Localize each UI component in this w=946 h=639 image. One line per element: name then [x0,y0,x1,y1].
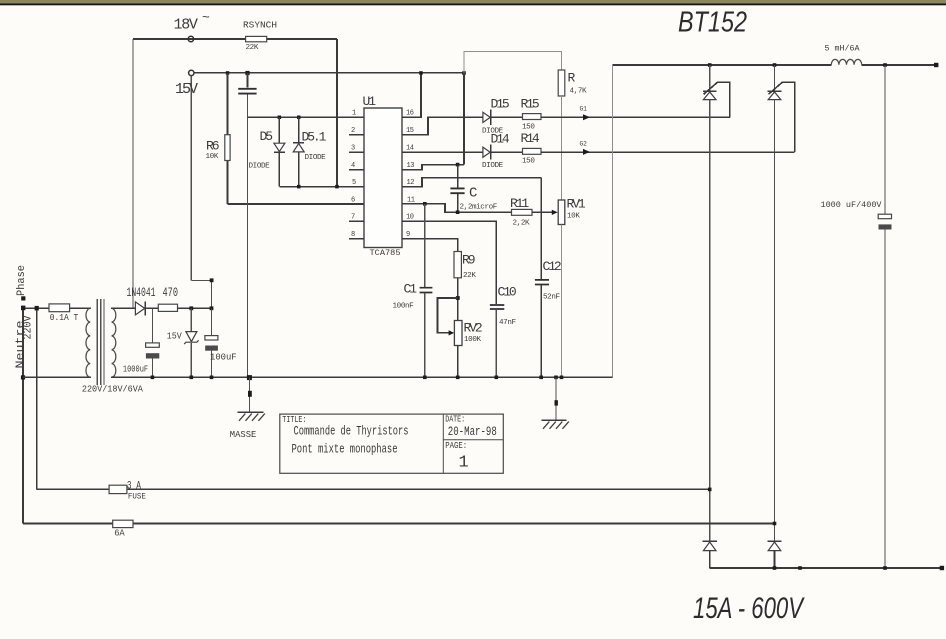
wire R bottom to RV1 top [561,96,563,200]
capacitor C1 [393,204,433,378]
wire fuse to primary [70,307,91,309]
node junction C12 on rail [539,376,543,380]
svg-text:2,2microF: 2,2microF [460,204,498,212]
node terminal Neutre [21,306,25,311]
transformer T1 core [97,299,104,385]
node junction R6 top [226,71,230,75]
wire secondary top to rectifier [111,307,135,309]
svg-text:1000uF: 1000uF [123,365,148,375]
node junction 100uF top [210,306,214,310]
diode D5 [249,117,285,186]
resistor R6 [206,73,231,204]
wire pin13 step [402,165,464,170]
node junction decoupling cap top [245,71,249,75]
wire link 15V rail up-over to resistor R [464,52,562,73]
svg-text:15V: 15V [175,81,198,98]
svg-text:6: 6 [351,196,355,204]
resistor R9 [454,252,476,281]
svg-text:3 A: 3 A [127,480,141,492]
svg-text:Pont mixte monophase: Pont mixte monophase [292,441,398,456]
node output terminal + [934,63,938,67]
top olive banner [0,0,946,5]
thyristor Q2 BT152 [768,65,782,541]
diode bottom D2 [767,541,781,568]
resistor RSYNCH [243,21,277,53]
wire neutre feed to SCR2 leg [23,523,775,525]
node junction output cap top [883,63,887,67]
node junction MASSE drop on rail [247,375,252,380]
node junction neutre on SCR2 leg [773,522,777,526]
wire gate Q2 [768,82,794,152]
svg-text:220V: 220V [23,315,35,339]
wire C12 column [540,178,542,280]
svg-text:100K: 100K [464,336,481,344]
wire 470 to DC node [178,307,212,309]
node junction R9/RV2 wiper [456,296,460,300]
wire phase feed to SCR1 leg [37,488,710,490]
wire pin15 step to D15 [402,117,483,134]
svg-text:5: 5 [352,179,356,187]
node junction pin16 on rail [419,71,423,75]
capacitor decoupling 15V [238,73,256,378]
svg-text:G2: G2 [580,140,588,147]
svg-text:DATE:: DATE: [445,414,465,424]
svg-text:22K: 22K [463,272,476,280]
diode 1N4041 [127,286,156,316]
node rail corner at x464 [462,71,466,75]
svg-text:Phase: Phase [16,265,28,296]
pin 3 stub [349,151,364,153]
svg-text:52nF: 52nF [543,294,560,302]
svg-text:TCA785: TCA785 [370,249,401,258]
wire pin1 ground net [248,116,365,118]
pin labels right [406,110,415,239]
pin labels left [351,110,356,239]
svg-text:R9: R9 [462,253,475,268]
wire RSYNCH right drop to pin5 net [336,39,338,187]
node junction cap on bus [883,566,887,570]
wire R9 bottom to RV2 [457,278,459,321]
capacitor output 1000uF/400V [821,65,892,568]
transformer T1 secondary winding [112,308,116,377]
fuse F3 0.1A T [49,304,79,323]
wire bottom output bus [710,567,942,569]
svg-text:10K: 10K [206,153,219,161]
wire pin5 net [279,186,364,188]
node junction ground2 drop on rail [554,376,558,380]
svg-text:PAGE:: PAGE: [445,441,467,451]
svg-text:G1: G1 [580,106,588,113]
node junction D5.1 bottom [297,185,301,189]
node junction C1 on pin11 [423,202,427,206]
node junction SCR2 anode [773,63,777,67]
node junction D2 on bus [773,566,777,570]
capacitor C10 [490,285,517,378]
svg-text:DIODE: DIODE [249,163,271,171]
svg-text:D14: D14 [491,132,510,147]
svg-text:FUSE: FUSE [128,493,146,502]
wire RV2 wiper bracket [438,298,458,336]
wire 18V~ horizontal [133,38,337,40]
svg-text:2,2K: 2,2K [513,220,530,228]
wire 18V left drop to transformer secondary [132,39,134,308]
svg-text:5 mH/6A: 5 mH/6A [825,44,860,53]
svg-text:C12: C12 [543,259,561,274]
svg-text:6A: 6A [114,529,125,539]
svg-text:D5: D5 [260,129,273,144]
node junction RSYNCH drop on pin5 [335,185,339,189]
capacitor 1000uF [123,308,159,377]
svg-text:220V/18V/6VA: 220V/18V/6VA [82,384,144,394]
svg-text:D15: D15 [491,97,509,112]
svg-text:1000 uF/400V: 1000 uF/400V [821,201,882,210]
svg-text:22K: 22K [246,44,259,52]
svg-text:D5.1: D5.1 [302,130,327,145]
svg-text:4,7K: 4,7K [570,88,587,96]
svg-text:100nF: 100nF [393,303,415,311]
wire 15V feed elbow to DC node [191,280,211,308]
transformer T1 primary winding [86,308,90,377]
svg-text:7: 7 [351,214,355,222]
svg-text:C10: C10 [498,285,516,300]
node junction zener top [189,306,193,310]
node corner square [210,278,214,282]
svg-text:R11: R11 [510,196,529,211]
capacitor C12 [535,259,561,377]
node G1 arrow [580,106,591,121]
node G2 arrow [580,140,591,155]
wire pin14 to D14 [402,151,483,153]
pin 7 stub [349,220,364,222]
potentiometer RV1 [558,197,586,378]
wire neutre column [22,310,24,524]
node junction C1 on rail [423,376,427,380]
svg-text:Commande de Thyristors: Commande de Thyristors [294,424,409,439]
wire rectifier to resistor 470 [145,307,158,309]
svg-text:18V: 18V [174,17,198,34]
node terminal Phase [21,296,25,300]
node junction C bottom on pin11 net [456,210,460,214]
node 18V (ring terminal) [188,36,193,41]
pin 8 stub [349,238,364,240]
wire D15 to R15 [491,116,523,118]
wire gate Q1 [704,82,730,117]
wire pin11 step [402,204,512,212]
svg-text:3: 3 [351,145,355,153]
svg-text:8: 8 [351,231,355,239]
svg-text:20-Mar-98: 20-Mar-98 [448,425,497,439]
svg-text:~: ~ [202,10,210,25]
node junction neutre to primary return [21,375,25,379]
resistor R11 [510,196,532,228]
svg-text:1N4041: 1N4041 [127,286,156,300]
wire G2 net to thyristor gate [541,151,795,153]
wire phase column [36,310,38,489]
thyristor Q1 BT152 [703,65,717,541]
svg-text:RSYNCH: RSYNCH [243,21,277,31]
wire R11 to RV1 wiper arrow [532,210,558,215]
node junction small on bus [798,566,802,570]
fuse F1 3A [109,480,146,501]
wire primary return [23,376,91,378]
diode D15 [482,97,509,136]
svg-text:MASSE: MASSE [230,429,257,440]
capacitor 100uF [205,308,237,377]
node junction C10 on rail [495,376,499,380]
node junction phase on SCR1 leg [708,488,712,492]
svg-text:4: 4 [351,162,355,170]
potentiometer RV2 [454,321,482,378]
resistor R15 [521,97,542,132]
fuse F2 6A [113,520,133,539]
node junction RV1 on rail [560,376,564,380]
wire AC input to fuse and primary [25,307,49,309]
wire pin6 net [228,203,365,205]
wire 15V column down [190,76,192,281]
svg-text:BT152: BT152 [678,7,747,39]
wire pin16 to 15V rail [402,73,421,117]
node junction C top on pin13 [456,163,460,167]
svg-text:RV2: RV2 [464,321,482,336]
ground secondary [542,377,569,428]
svg-text:R6: R6 [206,139,219,154]
node junction 1000uF on rail [151,376,155,380]
inductor 5mH/6A [825,44,862,64]
svg-text:47nF: 47nF [499,319,516,327]
svg-text:15V: 15V [167,331,182,342]
op-amp U1 TCA785 body [363,94,403,258]
svg-text:100uF: 100uF [210,352,237,363]
diode D5.1 [293,117,326,186]
node junction 100uF on rail [210,376,214,380]
resistor R14 [521,131,542,166]
wire rail end down to pin13 net [463,73,465,165]
pin 2 stub [349,134,364,136]
capacitor C 2,2microF [450,165,497,213]
wire +15V rail [194,72,464,74]
diode D14 [482,132,510,171]
svg-text:DIODE: DIODE [482,162,504,170]
resistor 470 [158,286,178,311]
svg-text:RV1: RV1 [567,197,586,212]
wire pin10 to C10 [402,221,496,304]
wire MASSE riser x612 [612,65,614,377]
svg-text:15A - 600V: 15A - 600V [693,592,805,625]
wire pin12 step across [402,178,541,187]
svg-text:10K: 10K [567,213,580,221]
node junction zener on rail [190,376,194,380]
label 18V [174,10,211,34]
ground MASSE [230,377,265,440]
svg-text:150: 150 [522,158,535,166]
pin 4 stub [349,169,364,171]
svg-text:1: 1 [459,454,469,473]
svg-text:R14: R14 [521,131,540,146]
svg-text:DIODE: DIODE [305,154,327,162]
diode zener 15V [167,308,199,377]
wire pin9 to R9 [402,239,458,252]
resistor R 4,7K [558,70,587,96]
node junction D5 top [278,116,282,120]
svg-text:470: 470 [163,286,179,300]
title block frame [280,414,504,473]
svg-text:0.1A T: 0.1A T [50,313,79,323]
wire MASSE rail [111,376,613,378]
wire top cathode rail [613,64,937,66]
diode bottom D1 [703,541,717,568]
svg-text:2: 2 [351,127,355,135]
wire G1 net to thyristor gate [541,116,730,118]
title block texts [282,414,496,472]
wire D14 to R14 [491,151,523,153]
node junction RV2 on rail [456,376,460,380]
node output terminal - [940,566,944,570]
svg-text:1: 1 [352,110,356,118]
node junction phase drop [35,306,39,311]
svg-text:R15: R15 [521,97,539,112]
node junction D5.1 top [297,116,301,120]
node junction SCR1 anode [708,63,712,67]
node 15V (ring terminal) [189,70,194,75]
